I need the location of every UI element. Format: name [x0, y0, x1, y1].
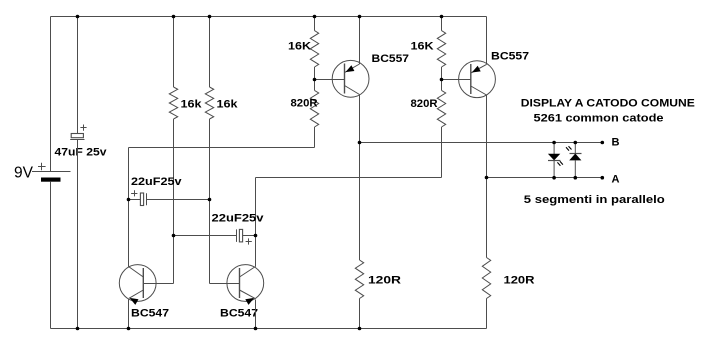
resistor R3 16k	[169, 87, 177, 119]
wire Q2 collector to R6 horizontal	[256, 177, 442, 179]
svg-text:16K: 16K	[411, 41, 434, 53]
svg-text:16K: 16K	[288, 41, 311, 53]
wire R6 bottom lead	[441, 127, 443, 178]
resistor R2 16K	[437, 31, 445, 67]
svg-text:820R: 820R	[411, 98, 438, 110]
wire Q4 collector lead	[486, 95, 488, 258]
wire Q3 base lead	[315, 79, 345, 81]
node D2 anode junction	[574, 176, 578, 180]
svg-text:120R: 120R	[368, 275, 401, 287]
wire Q3 emitter lead from rail	[359, 17, 361, 65]
wire top supply rail	[51, 16, 487, 18]
svg-text:120R: 120R	[504, 275, 535, 287]
resistor R4 16k	[205, 87, 213, 119]
svg-text:22uF25v: 22uF25v	[131, 176, 183, 188]
node top rail R2 junction	[440, 15, 444, 19]
svg-text:47uF 25v: 47uF 25v	[55, 147, 108, 159]
wire C1 top lead	[77, 17, 79, 134]
wire battery positive lead	[50, 17, 52, 173]
battery BT1 9V	[32, 163, 71, 182]
node bottom rail Q1 emitter junction	[127, 327, 131, 331]
wire R5 bottom lead	[314, 127, 316, 148]
LED D2 (right, anode to A)	[566, 143, 582, 178]
wire net B horizontal	[360, 142, 603, 144]
wire R1-R5 junction segment	[314, 67, 316, 90]
svg-text:B: B	[612, 137, 620, 149]
wire Q2 collector lead	[255, 178, 257, 267]
wire R3 16k top lead	[173, 17, 175, 88]
svg-text:5261 common catode: 5261 common catode	[534, 113, 664, 125]
node bottom rail Q2 emitter junction	[254, 327, 258, 331]
svg-text:5 segmenti in parallelo: 5 segmenti in parallelo	[524, 194, 665, 206]
wire Q1 emitter lead	[128, 300, 130, 329]
node top rail R4 junction	[208, 15, 212, 19]
wire battery negative lead	[50, 182, 52, 329]
resistor R5 820R	[310, 90, 318, 127]
node top rail R3 junction	[172, 15, 176, 19]
wire Q1 collector to R5 horizontal	[129, 147, 315, 149]
wire R4 bottom to Q2 base	[209, 119, 211, 284]
node top rail Q3 emitter junction	[358, 15, 362, 19]
resistor R7 120R	[355, 260, 363, 299]
capacitor C2 22uF25v (left)	[129, 190, 210, 205]
wire Q4 base lead	[442, 79, 472, 81]
wire Q3 collector lead	[359, 95, 361, 261]
svg-text:BC557: BC557	[491, 51, 529, 63]
node net B end terminal	[601, 141, 605, 145]
node top rail C1 junction	[76, 15, 80, 19]
node R1-R5-Q3 base junction	[313, 78, 317, 82]
wire R8 bottom lead	[486, 299, 488, 329]
wire Q4 emitter lead from rail	[486, 17, 488, 65]
svg-text:22uF25v: 22uF25v	[212, 213, 265, 225]
svg-text:16k: 16k	[217, 99, 239, 111]
svg-text:A: A	[612, 173, 620, 185]
svg-text:BC547: BC547	[220, 308, 258, 320]
wire bottom ground rail	[51, 328, 487, 330]
node net A tap on Q4 collector	[485, 176, 489, 180]
node D1 anode junction	[552, 141, 556, 145]
svg-text:820R: 820R	[291, 98, 318, 110]
wire R2 16K top lead	[441, 17, 443, 31]
wire R4 16k top lead	[209, 17, 211, 88]
wire net A horizontal (display side)	[487, 177, 603, 179]
node bottom rail C1 junction	[76, 327, 80, 331]
node C2 left junction on Q1 collector	[127, 198, 131, 202]
node C3 left junction on R3 wire	[172, 234, 176, 238]
resistor R1 16K	[310, 31, 318, 67]
wire Q1 base lead	[144, 283, 174, 285]
svg-text:BC557: BC557	[372, 53, 410, 65]
wire R2-R6 junction segment	[441, 67, 443, 90]
svg-text:BC547: BC547	[131, 308, 169, 320]
wire C1 bottom lead	[77, 140, 79, 329]
wire Q1 collector lead	[128, 148, 130, 267]
transistor Q3 BC557	[332, 60, 369, 97]
node R2-R6-Q4 base junction	[440, 78, 444, 82]
wire Q2 base lead	[210, 283, 240, 285]
svg-text:DISPLAY A CATODO COMUNE: DISPLAY A CATODO COMUNE	[521, 98, 695, 110]
LED D1 (left, anode to B)	[548, 143, 563, 178]
node net A end terminal	[601, 176, 605, 180]
node C2 right junction on R4 wire	[208, 198, 212, 202]
wire R1 16K top lead	[314, 17, 316, 31]
resistor R6 820R	[437, 90, 445, 127]
transistor Q2 BC547	[227, 265, 264, 305]
wire Q2 emitter lead	[255, 300, 257, 329]
node top rail R1 junction	[313, 15, 317, 19]
svg-text:9V: 9V	[14, 165, 33, 182]
node net B tap on Q3 collector	[358, 141, 362, 145]
node D1 cathode junction	[552, 176, 556, 180]
capacitor C3 22uF25v (right)	[174, 229, 256, 244]
svg-text:16k: 16k	[181, 99, 203, 111]
transistor Q4 BC557	[459, 61, 496, 98]
capacitor C1 47uF 25v electrolytic	[70, 125, 86, 140]
node bottom rail R7 junction	[358, 327, 362, 331]
wire R7 bottom lead	[359, 299, 361, 329]
node C3 right junction on Q2 collector	[254, 234, 258, 238]
resistor R8 120R	[482, 258, 490, 299]
transistor Q1 BC547	[119, 265, 156, 305]
wire R3 bottom to Q1 base	[173, 119, 175, 284]
node D2 cathode junction	[574, 141, 578, 145]
